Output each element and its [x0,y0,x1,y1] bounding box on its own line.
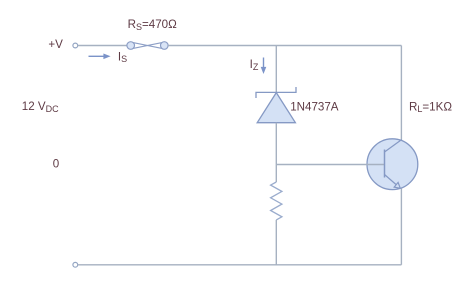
transistor Q1 base bar [384,150,386,178]
terminal +V input [73,43,78,48]
wire from resistor R2 to bottom rail [275,220,277,265]
transistor Q1 body [367,139,418,190]
wire top from resistor RS to right rail [168,45,401,47]
wire top from +V terminal to resistor RS [78,45,127,47]
wire from transistor emitter to bottom rail [400,189,402,265]
wire right rail down to transistor collector [400,46,402,141]
terminal bottom left [73,262,78,267]
resistor RS (bowtie fuse-style symbol) [127,42,168,50]
zener diode D1 1N4737A [256,87,296,123]
svg-text:0: 0 [53,158,59,171]
current arrow IZ [261,58,267,75]
svg-text:+V: +V [48,38,63,51]
resistor R2 (zigzag) [271,182,282,220]
wire bottom rail [78,264,402,266]
svg-text:RL=1KΩ: RL=1KΩ [409,100,452,114]
current arrow IS [89,54,111,60]
wire from zener anode down to resistor R2 [275,123,277,182]
transistor Q1 emitter stroke with arrow [385,175,401,189]
wire base: node to transistor base bar [276,164,384,166]
wire from top rail down to zener cathode [275,46,277,93]
svg-text:RS=470Ω: RS=470Ω [128,18,178,32]
svg-text:1N4737A: 1N4737A [290,101,339,114]
transistor Q1 collector stroke [385,140,402,152]
